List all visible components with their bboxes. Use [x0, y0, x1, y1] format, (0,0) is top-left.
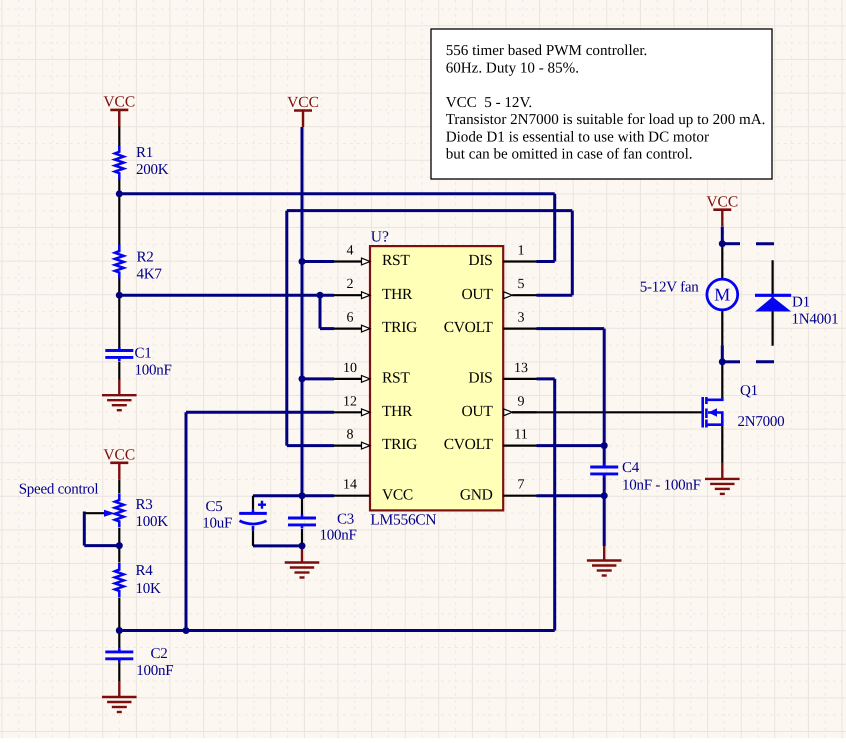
- svg-text:Q1: Q1: [740, 383, 758, 399]
- svg-text:OUT: OUT: [462, 286, 494, 303]
- svg-text:9: 9: [518, 394, 525, 409]
- svg-text:100nF: 100nF: [320, 528, 357, 544]
- svg-text:8: 8: [347, 428, 354, 443]
- svg-text:5-12V fan: 5-12V fan: [640, 280, 699, 296]
- svg-text:THR: THR: [382, 286, 413, 303]
- svg-text:10nF - 100nF: 10nF - 100nF: [622, 478, 701, 494]
- svg-text:TRIG: TRIG: [382, 436, 417, 453]
- svg-text:10: 10: [343, 361, 357, 376]
- svg-text:TRIG: TRIG: [382, 319, 417, 336]
- svg-text:VCC: VCC: [103, 94, 135, 111]
- svg-text:LM556CN: LM556CN: [370, 512, 436, 529]
- svg-text:OUT: OUT: [462, 403, 494, 420]
- svg-text:C4: C4: [622, 460, 640, 476]
- svg-text:RST: RST: [382, 370, 410, 387]
- svg-text:200K: 200K: [136, 162, 169, 178]
- svg-text:6: 6: [347, 311, 354, 326]
- svg-text:VCC: VCC: [706, 193, 738, 210]
- svg-text:2: 2: [347, 277, 354, 292]
- svg-text:CVOLT: CVOLT: [444, 319, 494, 336]
- svg-text:R1: R1: [136, 145, 153, 161]
- svg-text:4: 4: [347, 244, 354, 259]
- svg-text:60Hz. Duty 10 - 85%.: 60Hz. Duty 10 - 85%.: [446, 61, 579, 77]
- svg-text:U?: U?: [371, 229, 389, 246]
- svg-text:4K7: 4K7: [137, 267, 163, 283]
- svg-text:100K: 100K: [136, 514, 169, 530]
- svg-text:C3: C3: [337, 512, 354, 528]
- svg-text:DIS: DIS: [468, 370, 492, 387]
- svg-text:RST: RST: [382, 252, 410, 269]
- svg-text:1: 1: [518, 244, 525, 259]
- svg-text:GND: GND: [460, 486, 493, 503]
- svg-text:VCC: VCC: [287, 94, 319, 111]
- svg-text:10uF: 10uF: [202, 516, 232, 532]
- svg-text:13: 13: [514, 361, 528, 376]
- svg-text:DIS: DIS: [468, 252, 492, 269]
- svg-text:2N7000: 2N7000: [738, 414, 785, 430]
- svg-text:M: M: [714, 285, 730, 305]
- svg-text:C2: C2: [151, 646, 168, 662]
- svg-text:CVOLT: CVOLT: [444, 436, 494, 453]
- svg-text:D1: D1: [792, 295, 810, 311]
- svg-text:but can be omitted in case of: but can be omitted in case of fan contro…: [446, 147, 693, 163]
- svg-text:R3: R3: [136, 497, 153, 513]
- svg-text:12: 12: [343, 394, 357, 409]
- svg-text:Diode D1 is essential to use w: Diode D1 is essential to use with DC mot…: [446, 129, 709, 145]
- svg-text:3: 3: [518, 311, 525, 326]
- svg-text:14: 14: [343, 478, 357, 493]
- svg-text:R2: R2: [137, 250, 154, 266]
- svg-text:5: 5: [518, 277, 525, 292]
- svg-text:R4: R4: [136, 563, 154, 579]
- svg-text:VCC: VCC: [103, 447, 135, 464]
- svg-text:7: 7: [518, 478, 525, 493]
- svg-text:THR: THR: [382, 403, 413, 420]
- svg-text:C5: C5: [206, 499, 223, 515]
- svg-text:556 timer based PWM controller: 556 timer based PWM controller.: [446, 43, 648, 59]
- svg-text:VCC: VCC: [382, 486, 413, 503]
- svg-text:Speed control: Speed control: [19, 482, 99, 498]
- svg-text:Transistor 2N7000 is suitable: Transistor 2N7000 is suitable for load u…: [446, 112, 766, 128]
- svg-text:10K: 10K: [136, 581, 162, 597]
- svg-text:1N4001: 1N4001: [792, 312, 839, 328]
- svg-text:100nF: 100nF: [135, 363, 172, 379]
- svg-text:C1: C1: [135, 346, 152, 362]
- svg-text:VCC 5 - 12V.: VCC 5 - 12V.: [446, 95, 533, 111]
- svg-text:11: 11: [514, 428, 527, 443]
- svg-text:100nF: 100nF: [136, 663, 173, 679]
